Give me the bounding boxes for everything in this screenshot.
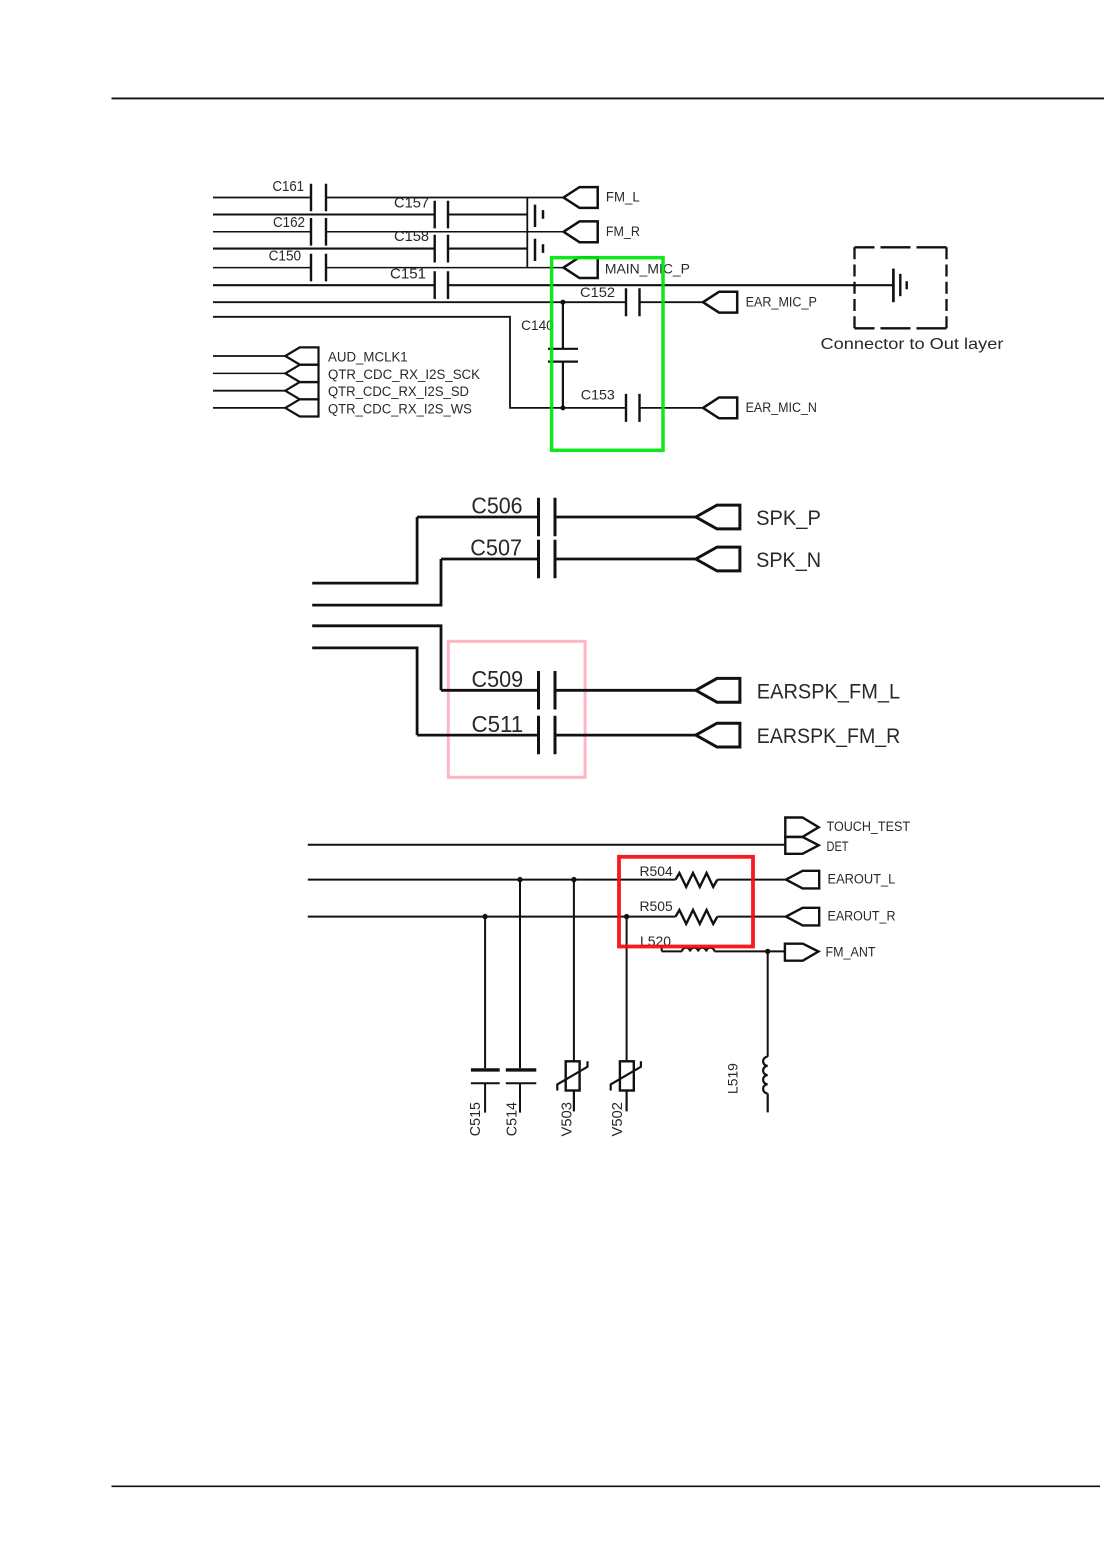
wire AUD_MCLK1 [213,355,285,357]
capacitor C515 [471,1068,500,1071]
wire L520 lead and net FM_ANT [662,946,785,952]
node dot L519/FM_ANT [765,949,770,954]
capacitor C153 [626,394,640,422]
svg-text:MAIN_MIC_P: MAIN_MIC_P [605,262,690,277]
port SPK_N [696,547,740,571]
svg-text:C514: C514 [503,1102,520,1136]
resistor R505 [676,910,718,924]
node dot V503/EAROUT_L [571,877,576,882]
wire stub 1 (to SPK_P) [312,517,417,583]
capacitor C158 [435,235,448,263]
highlight pink box [448,641,585,777]
svg-text:C162: C162 [273,214,305,231]
svg-text:R505: R505 [640,899,673,914]
wire drop to V502 [626,917,628,1062]
capacitor C162 [311,218,326,246]
ground symbol (rotated) [892,269,895,303]
svg-text:L519: L519 [725,1063,741,1094]
wire net F (C151 line to connector box) [213,284,893,286]
capacitor C140 (vertical) [548,302,578,408]
svg-text:C506: C506 [471,493,522,519]
wire stub 2 (to SPK_N) [312,559,441,605]
node dot C515/EAROUT_R [482,914,487,919]
svg-text:C151: C151 [390,266,426,283]
svg-text:C509: C509 [472,666,524,692]
wire drop to C515 [484,917,486,1069]
capacitor C152 [626,288,640,316]
svg-text:SPK_N: SPK_N [756,549,821,572]
svg-text:FM_ANT: FM_ANT [826,944,876,959]
port FM_L [564,187,598,208]
wire net EARSPK_FM_R [417,734,696,737]
node junction dot on line G [560,300,565,305]
wire stub 4 (to C511) [312,648,417,735]
port EAROUT_L [786,871,819,889]
small cap plates upper (by x535) [535,205,543,227]
port QTR_CDC_RX_I2S_SD [285,382,318,399]
capacitor C507 [539,540,556,579]
svg-text:AUD_MCLK1: AUD_MCLK1 [328,349,408,364]
wire net DET [308,844,786,846]
svg-text:EARSPK_FM_R: EARSPK_FM_R [757,725,901,748]
capacitor C514 [506,1068,537,1071]
wire QTR_CDC_RX_I2S_SD [213,390,285,392]
svg-text:EAR_MIC_P: EAR_MIC_P [746,295,817,310]
svg-text:R504: R504 [640,864,674,879]
svg-text:C507: C507 [470,534,522,560]
wire net H (EAR_MIC_N line with vertical jog) [213,317,703,408]
highlight green box [552,258,663,451]
port SPK_P [696,505,740,529]
node junction dot on line H [560,405,565,410]
wire net FM_R (line C) [213,231,564,233]
svg-text:C161: C161 [273,178,305,195]
wire drop to C514 [519,880,521,1069]
svg-text:EARSPK_FM_L: EARSPK_FM_L [757,680,900,703]
svg-text:C511: C511 [472,711,524,737]
svg-text:C150: C150 [269,248,302,265]
svg-text:V502: V502 [609,1102,626,1137]
wire net B (C157 line) [213,213,527,215]
port MAIN_MIC_P [564,257,598,278]
capacitor C150 [311,254,326,282]
wire QTR_CDC_RX_I2S_SCK [213,372,285,374]
top page rule [112,97,1105,99]
port EAR_MIC_N [703,398,737,419]
port FM_R [564,221,598,242]
svg-text:QTR_CDC_RX_I2S_SD: QTR_CDC_RX_I2S_SD [328,384,469,399]
svg-text:C153: C153 [581,386,615,402]
svg-text:QTR_CDC_RX_I2S_SCK: QTR_CDC_RX_I2S_SCK [328,367,480,382]
connector-to-out-layer dashed box [855,246,947,248]
svg-text:C152: C152 [580,284,615,300]
node dot C514/EAROUT_L [517,877,522,882]
svg-text:QTR_CDC_RX_I2S_WS: QTR_CDC_RX_I2S_WS [328,402,472,417]
svg-text:FM_R: FM_R [606,224,640,239]
wire net FM_L (line A) [213,197,564,199]
port EARSPK_FM_L [696,678,740,702]
port EAROUT_R [786,908,819,926]
wire net SPK_P [417,516,696,519]
svg-text:V503: V503 [559,1102,576,1137]
port TOUCH_TEST [785,818,818,837]
svg-text:EAR_MIC_N: EAR_MIC_N [746,400,817,415]
inductor L519 [763,1057,768,1113]
inductor L520 [682,948,714,952]
port DET [785,837,818,854]
port EARSPK_FM_R [696,723,740,747]
port AUD_MCLK1 [285,347,318,364]
highlight red box [619,857,753,947]
capacitor C157 [435,201,448,229]
svg-text:EAROUT_L: EAROUT_L [828,872,896,887]
svg-text:TOUCH_TEST: TOUCH_TEST [827,819,911,834]
svg-text:C515: C515 [467,1102,484,1136]
svg-text:SPK_P: SPK_P [756,507,821,530]
wire net G (EAR_MIC_P line) [213,301,703,303]
wire net EARSPK_FM_L [441,689,696,692]
resistor R504 [676,873,718,887]
capacitor C151 [435,271,448,299]
port QTR_CDC_RX_I2S_SCK [285,365,318,382]
small cap plates lower (by x535) [535,239,543,261]
wire net SPK_N [441,558,696,561]
svg-text:DET: DET [827,839,849,854]
wire net EAROUT_L [308,879,786,881]
wire net D (C158 line) [213,248,527,250]
svg-text:EAROUT_R: EAROUT_R [828,908,896,923]
svg-text:C158: C158 [394,228,429,245]
wire vertical bus at x527 [526,198,528,268]
svg-text:Connector to Out layer: Connector to Out layer [821,336,1005,353]
wire drop to V503 [573,880,575,1062]
capacitor C509 [539,671,556,710]
port FM_ANT [785,944,819,961]
svg-text:C157: C157 [394,194,429,211]
wire net EAROUT_R [308,916,786,918]
node dot V502/EAROUT_R [624,914,629,919]
bottom page rule [112,1485,1101,1487]
port QTR_CDC_RX_I2S_WS [285,399,318,416]
wire net MAIN_MIC_P (line E) [213,267,564,269]
varistor V503 [566,1061,580,1090]
svg-text:C140: C140 [521,317,554,333]
varistor V502 [620,1061,634,1090]
capacitor C161 [311,184,326,212]
wire QTR_CDC_RX_I2S_WS [213,407,285,409]
wire drop to L519 [767,951,769,1056]
capacitor C511 [539,716,556,755]
svg-text:FM_L: FM_L [606,190,640,205]
capacitor C506 [539,498,556,537]
port EAR_MIC_P [703,292,737,313]
wire stub 3 (to C509) [312,626,441,691]
